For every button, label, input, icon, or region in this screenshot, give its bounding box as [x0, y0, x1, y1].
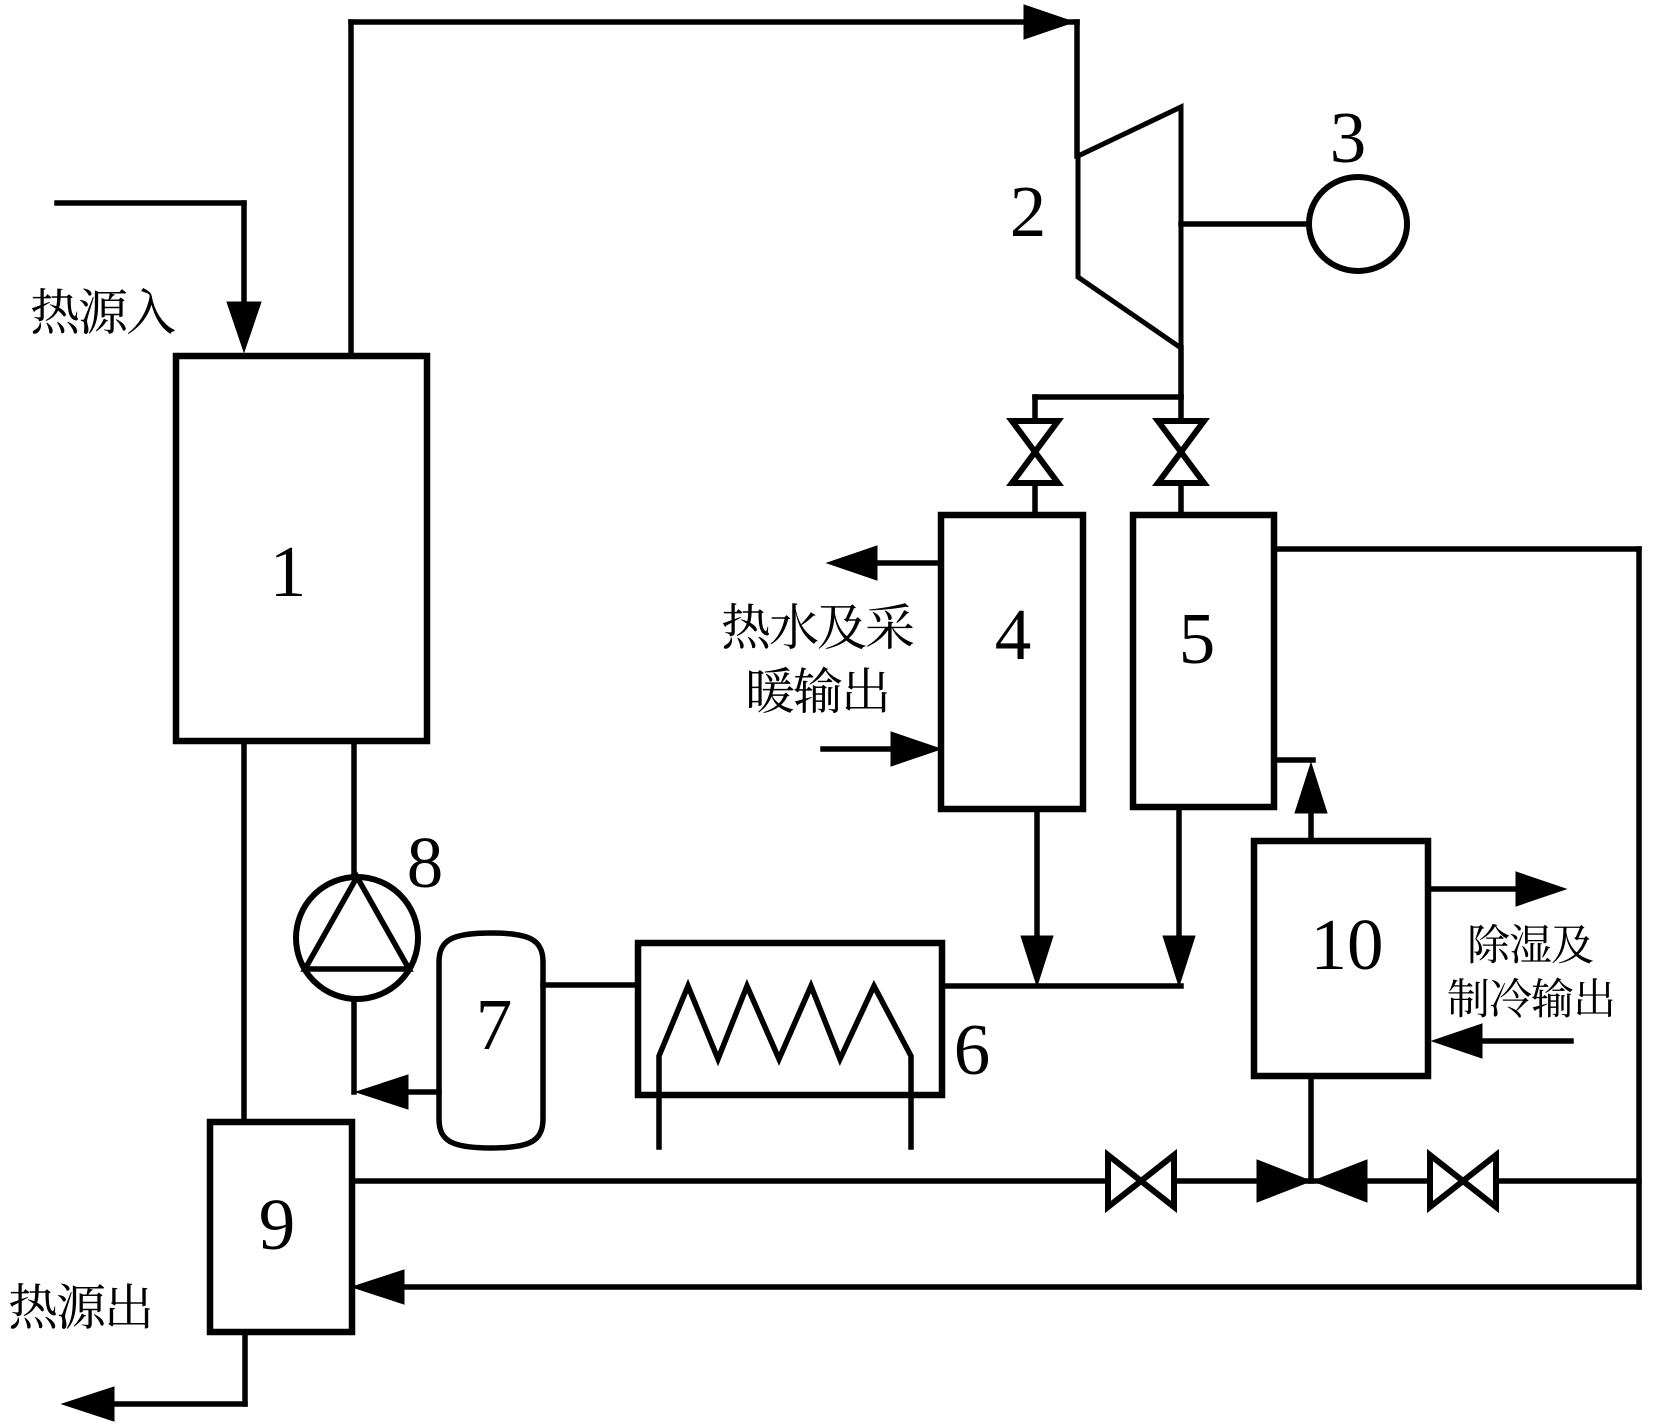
wire exhaust header horizontal	[1035, 394, 1181, 400]
unit 10 (dehumidifier/chiller)	[1254, 841, 1428, 1076]
arrow steam into turbine	[1024, 5, 1074, 39]
svg-text:6: 6	[954, 1009, 991, 1090]
vessel 9	[210, 1122, 352, 1332]
wire cooling return into 10	[1482, 1038, 1571, 1044]
valve V3 (bottom left)	[1108, 1155, 1174, 1207]
svg-text:3: 3	[1330, 97, 1367, 178]
wire pump 8 bottom drop	[351, 999, 357, 1092]
label text dehumidify-and-cooling output line2	[1448, 978, 1612, 1018]
label text dehumidify-and-cooling output line1	[1471, 924, 1593, 964]
wire bottom header from vessel 9 to riser	[352, 1178, 1639, 1184]
svg-text:5: 5	[1179, 598, 1216, 679]
svg-text:10: 10	[1311, 904, 1384, 985]
svg-text:8: 8	[407, 822, 444, 903]
wire exchanger 5 bottom drop	[1176, 807, 1182, 940]
wire turbine exhaust vertical	[1178, 348, 1184, 397]
turbine 2	[1078, 107, 1181, 348]
arrow return into vessel 9	[352, 1270, 404, 1304]
junction arrow left at node below 10	[1313, 1160, 1367, 1202]
wire cooling outlet from 10	[1428, 886, 1518, 892]
arrow hot water return into 4	[891, 732, 941, 766]
valve V4 (bottom right)	[1430, 1155, 1496, 1207]
wire tank 7 to pump line	[408, 1089, 439, 1095]
wire turbine inlet vertical	[1074, 22, 1080, 156]
arrow into pump suction	[356, 1075, 408, 1109]
arrow condensate from 5 down	[1163, 936, 1195, 986]
svg-text:4: 4	[995, 594, 1032, 675]
wire unit 10 bottom drop	[1308, 1076, 1314, 1181]
pump 8	[296, 877, 418, 999]
wire hot water return into 4	[823, 746, 893, 752]
arrow heat-source outlet	[62, 1387, 114, 1421]
tank 7 (receiver)	[439, 933, 543, 1148]
svg-text:9: 9	[259, 1184, 296, 1265]
wire return header into vessel 9	[404, 1284, 1639, 1290]
wire valve V2 to exchanger 5	[1178, 483, 1184, 515]
wire arrow to unit 10 top	[1308, 808, 1314, 841]
wire stub to valve V2	[1178, 397, 1184, 421]
vessel 1 (generator/boiler)	[176, 356, 427, 741]
exchanger 6 coil zigzag	[659, 986, 911, 1147]
label text heat-source-in	[32, 288, 175, 334]
wire stub to valve V1	[1032, 397, 1038, 421]
wire heat-source inlet vertical drop	[241, 203, 247, 305]
svg-text:7: 7	[476, 984, 513, 1065]
generator 3	[1309, 177, 1407, 271]
shaft turbine to generator	[1181, 221, 1309, 227]
wire valve V1 to exchanger 4	[1032, 483, 1038, 515]
valve V2 (steam valve right)	[1158, 421, 1204, 483]
label text heat-source-out	[10, 1283, 150, 1329]
wire exchanger 5 right to far-right riser	[1274, 546, 1639, 552]
arrow condensate from 4 down	[1021, 936, 1053, 986]
wire exchanger 4 bottom drop	[1034, 809, 1040, 940]
wire hot water outlet from 4	[872, 560, 941, 566]
pump 8 impeller triangle	[305, 877, 409, 969]
heat exchanger 4	[941, 515, 1083, 809]
arrow hot water outlet	[827, 546, 877, 580]
valve V1 (steam valve left)	[1012, 421, 1058, 483]
junction arrow right at node below 10	[1257, 1160, 1311, 1202]
wire vessel 1 top to turbine: vertical up	[348, 22, 354, 356]
arrow cooling return into 10	[1432, 1024, 1482, 1058]
wire steam line horizontal top	[351, 19, 1077, 25]
wire heat-source outlet horizontal	[115, 1401, 245, 1407]
label text hot-water-and-heating output line1	[723, 603, 913, 649]
arrow into vessel 1 top	[227, 302, 261, 352]
arrow from 10 up into 5	[1295, 763, 1327, 813]
wire condensate header from exchanger 6	[942, 983, 1181, 989]
wire heat-source inlet horizontal	[57, 200, 244, 206]
heat exchanger 6	[638, 943, 942, 1095]
wire vessel 1 left down to vessel 9	[241, 741, 247, 1122]
label text hot-water-and-heating output line2	[749, 667, 887, 714]
heat exchanger 5	[1133, 515, 1274, 807]
svg-text:1: 1	[270, 531, 307, 612]
wire vessel 1 right down to pump 8	[351, 741, 357, 877]
wire far-right riser vertical	[1636, 549, 1642, 1287]
wire vessel 9 bottom drop	[242, 1332, 248, 1404]
arrow cooling outlet	[1516, 872, 1566, 906]
svg-text:2: 2	[1010, 171, 1047, 252]
wire exchanger 5 lower right stub	[1274, 757, 1313, 763]
wire tank 7 to exchanger 6	[543, 982, 638, 988]
